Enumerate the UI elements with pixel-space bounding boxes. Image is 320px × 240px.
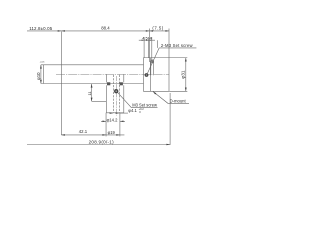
- svg-text:φ10: φ10: [36, 72, 41, 80]
- svg-text:208.9(0/-1): 208.9(0/-1): [89, 139, 115, 144]
- arrows row1: [58, 30, 169, 32]
- svg-text:2-M3 Set screw: 2-M3 Set screw: [161, 43, 194, 48]
- front set screw circle: [145, 73, 149, 77]
- shaft body outline: [44, 65, 144, 84]
- phi10 dim: [40, 65, 42, 84]
- dim row 208.9: [27, 144, 170, 146]
- dim 11 vertical: [91, 84, 93, 101]
- top set screw hole: [151, 60, 154, 75]
- svg-text:M3 Set screw: M3 Set screw: [132, 103, 157, 108]
- wall section squares: [107, 82, 123, 85]
- dim row1 line: [27, 30, 169, 32]
- svg-text:11: 11: [87, 91, 92, 96]
- svg-text:φ19: φ19: [108, 130, 116, 135]
- svg-text:112.8±0.05: 112.8±0.05: [29, 26, 53, 31]
- ext line right end x169 above flange: [168, 29, 170, 58]
- svg-text:-0.05: -0.05: [40, 61, 45, 63]
- leader M3 set screw: [118, 93, 158, 108]
- phi4.1 arrows: [110, 112, 120, 114]
- collar verticals above slit: [106, 75, 124, 83]
- flange seam line: [149, 58, 151, 91]
- ext lines row2: [144, 37, 157, 62]
- M3 clamp screw head: [114, 89, 118, 93]
- phi14.2 ext lines: [106, 113, 120, 137]
- phi14.2 arrows: [101, 120, 125, 122]
- svg-text:φ4.1: φ4.1: [128, 108, 137, 113]
- ext line for 11: [92, 100, 107, 102]
- svg-text:(7.5): (7.5): [152, 25, 163, 30]
- ext line x61.3 full: [60, 32, 62, 135]
- svg-text:4.5: 4.5: [142, 36, 148, 41]
- svg-text:88.4: 88.4: [101, 25, 110, 30]
- centerline screw hole vertical: [115, 76, 117, 116]
- svg-text:42.1: 42.1: [79, 129, 88, 134]
- ext line x149.4: [148, 29, 150, 63]
- svg-text:D-mount: D-mount: [170, 99, 187, 104]
- dim row 42.1 / phi19: [61, 134, 124, 136]
- centerline main shaft: [56, 73, 169, 75]
- phi31 dim right: [155, 58, 188, 92]
- flange body D-mount: [144, 58, 170, 92]
- D-mount leader: [153, 92, 189, 104]
- leader 2-M3 set screw: [148, 48, 160, 73]
- hidden tapped hole: [113, 75, 119, 113]
- svg-text:φ31: φ31: [180, 70, 185, 79]
- svg-text:φ14.2: φ14.2: [107, 118, 119, 123]
- clamp block: [106, 85, 124, 113]
- dim row2 line: [139, 39, 155, 41]
